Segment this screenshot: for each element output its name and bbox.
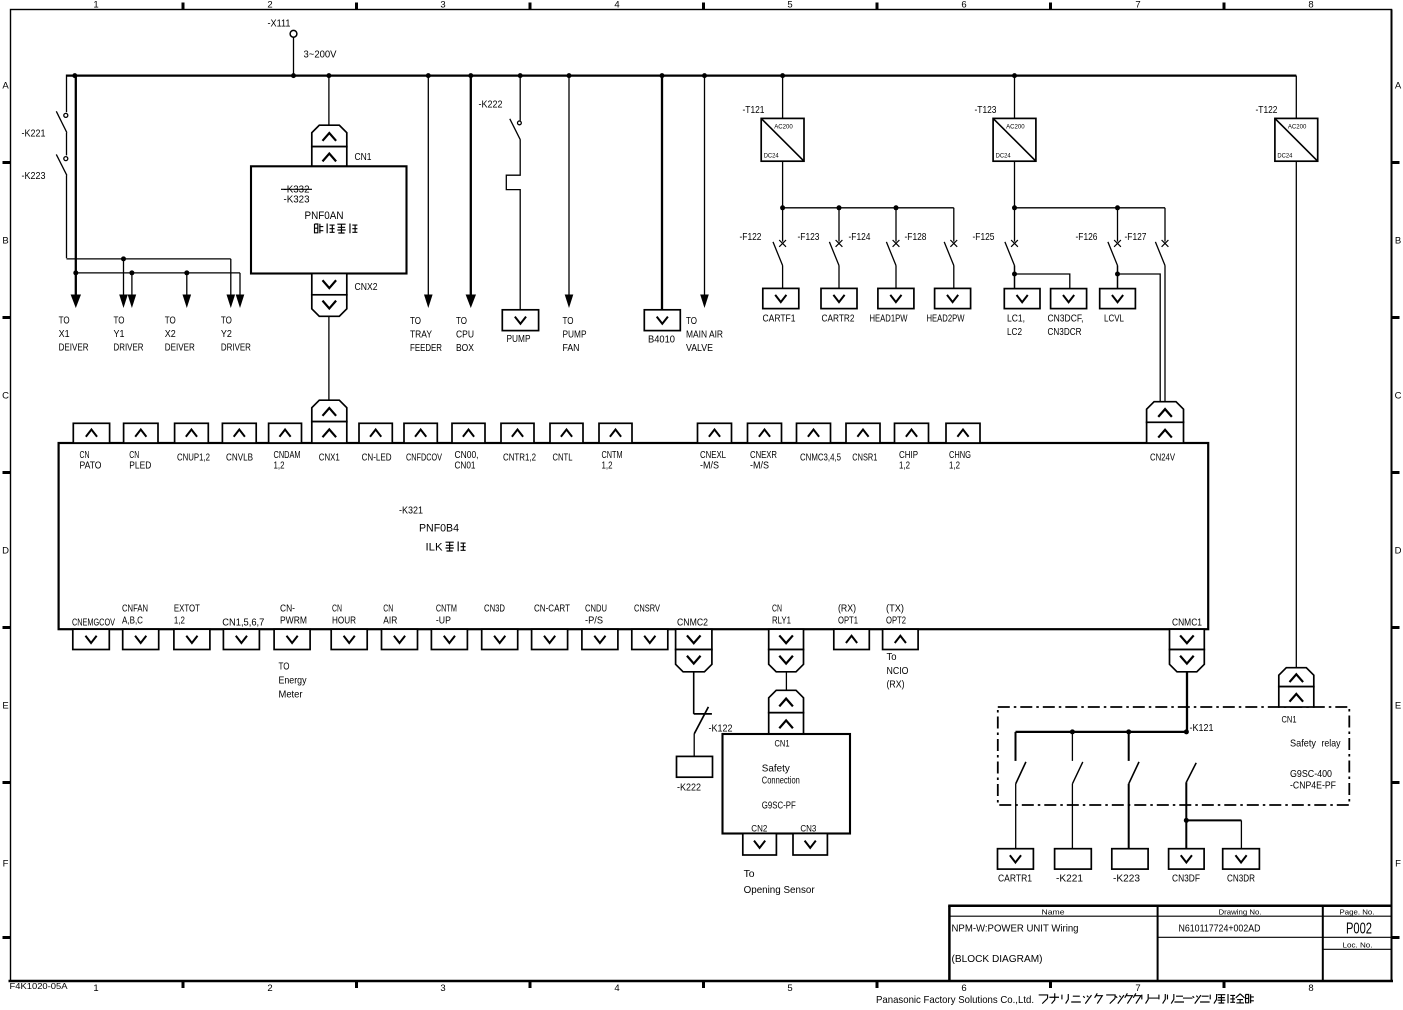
- pin label CNTL: [553, 453, 573, 464]
- svg-text:AC200: AC200: [1006, 124, 1025, 131]
- svg-text:CN1: CN1: [1282, 715, 1297, 725]
- pin label CN HOUR: [332, 603, 356, 626]
- svg-text:-X111: -X111: [268, 19, 291, 30]
- connector CNVLB: [222, 423, 256, 443]
- label 瞬停基板 (momentary-stop board): [315, 224, 358, 234]
- svg-text:P002: P002: [1346, 921, 1372, 938]
- svg-text:CHIP: CHIP: [899, 450, 918, 461]
- label Safety relay: [1290, 739, 1341, 750]
- box Safety Connection G9SC-PF: [723, 734, 851, 834]
- connector CN3: [793, 834, 827, 856]
- transformer -T121 AC200/DC24: [743, 105, 805, 161]
- pin label CNTM-UP: [436, 603, 457, 626]
- svg-text:Drawing No.: Drawing No.: [1219, 908, 1262, 917]
- wire CNMC2 down: [693, 672, 695, 714]
- svg-text:TO: TO: [563, 316, 574, 327]
- svg-text:TO: TO: [686, 316, 697, 327]
- label TO Y2 DRIVER: [221, 316, 251, 354]
- svg-text:CN3DCR: CN3DCR: [1048, 327, 1082, 338]
- pin label OPT2: [886, 603, 906, 626]
- label TO PUMP FAN: [563, 316, 587, 354]
- svg-text:6: 6: [961, 983, 966, 994]
- wire fuse rail 1: [783, 207, 954, 209]
- pin label CNMC3,4,5: [800, 453, 841, 464]
- load box CN3DCF,CN3DCR: [1048, 289, 1087, 338]
- svg-text:-T123: -T123: [975, 105, 997, 116]
- svg-text:2: 2: [267, 983, 272, 994]
- node under F125: [1012, 272, 1017, 277]
- pin label CN RLY1: [772, 603, 791, 626]
- connector CN1 (safety connection): [769, 690, 804, 734]
- switch -K122: [694, 707, 733, 735]
- column tick marks top: [183, 3, 1224, 10]
- wire K221 to K223: [66, 133, 68, 156]
- svg-text:3~200V: 3~200V: [304, 50, 337, 61]
- node on feed line 1: [121, 256, 126, 261]
- connector CNSR1: [846, 423, 880, 443]
- svg-text:8: 8: [1308, 0, 1313, 11]
- svg-text:CN: CN: [80, 450, 90, 461]
- svg-text:Safety: Safety: [1290, 739, 1317, 750]
- connector CN-PWRM: [274, 629, 310, 649]
- svg-text:D: D: [2, 546, 9, 557]
- label TO TRAY FEEDER: [410, 316, 442, 354]
- connector CNX2: [312, 274, 378, 317]
- load box CARTF1: [763, 288, 799, 324]
- svg-text:HEAD2PW: HEAD2PW: [927, 314, 965, 325]
- pin label CN-CART: [534, 603, 571, 614]
- svg-text:Connection: Connection: [762, 776, 800, 787]
- svg-text:CN3DCF,: CN3DCF,: [1048, 314, 1084, 325]
- connector OPT1: [834, 629, 870, 649]
- svg-text:TRAY: TRAY: [410, 330, 432, 341]
- svg-text:CNEXR: CNEXR: [750, 450, 777, 461]
- relay contact K121-2 (to K221 coil): [1072, 732, 1082, 849]
- svg-text:CNMC1: CNMC1: [1172, 618, 1202, 629]
- svg-text:PLED: PLED: [129, 461, 151, 472]
- svg-text:CNEMGCOV: CNEMGCOV: [72, 618, 115, 629]
- svg-text:F: F: [3, 859, 9, 870]
- connector CNDU-P/S: [582, 629, 618, 649]
- frame right edge (thick): [1391, 10, 1393, 982]
- svg-text:4: 4: [614, 983, 619, 994]
- wire F126 to LCVL: [1117, 266, 1119, 289]
- svg-text:CN: CN: [129, 450, 139, 461]
- title block frame: [948, 906, 1391, 981]
- svg-text:B: B: [1395, 236, 1401, 247]
- svg-text:DEIVER: DEIVER: [165, 343, 195, 354]
- pin label CNMC1: [1172, 618, 1202, 629]
- fuse -F122: [740, 208, 787, 289]
- svg-text:CNVLB: CNVLB: [226, 453, 253, 464]
- svg-text:G9SC-PF: G9SC-PF: [762, 801, 796, 812]
- row letters right: [1395, 81, 1402, 870]
- connector CNDAM 1,2: [269, 423, 302, 443]
- connector CNTR1,2: [501, 423, 534, 443]
- svg-text:(RX): (RX): [838, 603, 856, 614]
- load box LC1,LC2: [1004, 289, 1040, 338]
- wire relay contact rail: [1016, 731, 1188, 733]
- label -K332 (struck out): [281, 185, 312, 196]
- svg-text:-M/S: -M/S: [700, 461, 719, 472]
- svg-text:Page. No.: Page. No.: [1340, 908, 1375, 917]
- connector box CN3DF: [1169, 849, 1205, 885]
- svg-text:6: 6: [961, 0, 966, 11]
- pin label CNTM 1,2: [602, 450, 623, 472]
- node under F126: [1115, 272, 1120, 277]
- svg-text:PNF0AN: PNF0AN: [305, 210, 344, 222]
- svg-text:-K223: -K223: [22, 171, 46, 182]
- connector OPT2: [883, 629, 919, 649]
- svg-text:(BLOCK DIAGRAM): (BLOCK DIAGRAM): [952, 953, 1043, 965]
- connector CNEXR -M/S: [748, 423, 782, 443]
- svg-text:DC24: DC24: [764, 153, 780, 160]
- svg-text:E: E: [1395, 701, 1401, 712]
- svg-text:5: 5: [787, 0, 792, 11]
- wire -X111 to bus: [293, 37, 295, 75]
- load box PUMP: [502, 310, 538, 345]
- svg-text:CN1,5,6,7: CN1,5,6,7: [222, 618, 264, 629]
- connector CNFAN A,B,C: [123, 629, 159, 649]
- pin label CNSRV: [634, 603, 660, 614]
- svg-text:TO: TO: [279, 662, 290, 673]
- wire bus to T121: [782, 76, 784, 119]
- pin label CNUP1,2: [177, 453, 210, 464]
- wire T123 to fuse rail 2: [1014, 161, 1016, 208]
- svg-text:CN-: CN-: [280, 603, 295, 614]
- svg-text:5: 5: [787, 983, 792, 994]
- connector CN-LED: [359, 423, 392, 443]
- svg-text:CN2: CN2: [751, 824, 767, 834]
- wire arrow to X2 driver: [183, 273, 192, 308]
- svg-text:1: 1: [93, 983, 98, 994]
- pin label CNEXR -M/S: [750, 450, 777, 472]
- svg-text:-F128: -F128: [905, 232, 927, 243]
- svg-text:AC200: AC200: [774, 124, 793, 131]
- bus junction nodes: [72, 73, 1017, 78]
- svg-text:-K121: -K121: [1190, 723, 1214, 734]
- connector CNUP1,2: [175, 423, 209, 443]
- label Safety Connection: [762, 764, 800, 787]
- label To NCIO (RX): [887, 652, 909, 691]
- svg-text:CN3D: CN3D: [484, 603, 505, 614]
- svg-text:Energy: Energy: [279, 676, 308, 687]
- svg-text:LCVL: LCVL: [1104, 314, 1124, 325]
- connector CNTM-UP: [431, 629, 467, 649]
- svg-text:-M/S: -M/S: [750, 461, 769, 472]
- connector CNSRV: [632, 629, 668, 649]
- connector CN PLED: [124, 423, 158, 443]
- connector CN3D: [482, 629, 518, 649]
- connector CN-CART: [532, 629, 568, 649]
- connector CN1 (PNF0AN): [312, 125, 372, 166]
- svg-text:CARTF1: CARTF1: [763, 314, 796, 325]
- svg-text:CARTR1: CARTR1: [998, 874, 1032, 885]
- label TO CPU BOX: [456, 316, 474, 354]
- svg-text:CN-CART: CN-CART: [534, 603, 571, 614]
- svg-text:CN3DR: CN3DR: [1227, 874, 1255, 885]
- svg-text:CNSR1: CNSR1: [852, 453, 877, 464]
- svg-text:CN1: CN1: [355, 152, 372, 163]
- connector CN1 (safety relay): [1279, 668, 1314, 707]
- pin label CHNG 1,2: [949, 450, 971, 472]
- svg-text:F: F: [1395, 859, 1401, 870]
- wire K223 down to feed line 1: [66, 175, 68, 258]
- svg-text:1,2: 1,2: [602, 461, 613, 472]
- svg-text:CN01: CN01: [455, 461, 476, 472]
- wire arrow to Y2 driver (a): [227, 259, 236, 308]
- svg-text:8: 8: [1308, 983, 1313, 994]
- svg-text:CN-LED: CN-LED: [362, 453, 392, 464]
- svg-text:LC2: LC2: [1007, 327, 1022, 338]
- svg-text:D: D: [1395, 546, 1402, 557]
- svg-text:VALVE: VALVE: [686, 343, 713, 354]
- svg-text:CNMC3,4,5: CNMC3,4,5: [800, 453, 841, 464]
- frame bottom edge (thick): [9, 980, 1394, 982]
- wire bus down to K221: [66, 75, 68, 113]
- relay coil box -K221: [1055, 849, 1092, 885]
- wire arrow to Y1 driver (b): [128, 273, 137, 308]
- fuse -F126: [1076, 208, 1121, 289]
- svg-text:TO: TO: [221, 316, 232, 327]
- label TO Y1 DRIVER: [114, 316, 144, 354]
- svg-text:-K321: -K321: [399, 506, 423, 517]
- relay contact K121-1 (to CARTR1): [1016, 732, 1026, 849]
- connector CHNG 1,2: [946, 423, 980, 443]
- svg-text:-F123: -F123: [798, 232, 820, 243]
- svg-text:CNFAN: CNFAN: [122, 603, 148, 614]
- pin label CN AIR: [383, 603, 397, 626]
- svg-text:NPM-W:POWER UNIT Wiring: NPM-W:POWER UNIT Wiring: [952, 923, 1079, 935]
- svg-text:EXTOT: EXTOT: [174, 603, 201, 614]
- svg-text:LC1,: LC1,: [1007, 314, 1025, 325]
- wire CNMC1 down (thick): [1186, 672, 1188, 732]
- wire branch F126 to CN24V (left): [1118, 274, 1161, 402]
- pin label CN PLED: [129, 450, 151, 472]
- svg-text:Y2: Y2: [221, 329, 232, 340]
- svg-text:A: A: [1395, 81, 1402, 92]
- svg-text:OPT2: OPT2: [886, 616, 906, 627]
- wire fuse rail 2: [1015, 207, 1166, 209]
- svg-text:DRIVER: DRIVER: [221, 343, 251, 354]
- svg-text:-K221: -K221: [1056, 874, 1083, 885]
- svg-text:CNDAM: CNDAM: [274, 450, 301, 461]
- transformer -T122 AC200/DC24: [1256, 105, 1318, 161]
- load box CARTR1: [998, 849, 1034, 885]
- svg-text:CNMC2: CNMC2: [677, 618, 708, 629]
- svg-text:2: 2: [267, 0, 272, 11]
- wire arrow to Y2 driver (b): [236, 273, 245, 308]
- wire thick bus drop to X1 driver: [71, 76, 81, 308]
- wire bus to T123: [1014, 76, 1016, 119]
- connector CN1,5,6,7: [223, 629, 259, 649]
- svg-text:-F125: -F125: [973, 232, 995, 243]
- pin label CN3D: [484, 603, 505, 614]
- label TO X2 DEIVER: [165, 316, 195, 354]
- pin label CN24V: [1150, 453, 1175, 464]
- svg-text:CHNG: CHNG: [949, 450, 971, 461]
- relay contact K121-3 (to K223 coil): [1129, 732, 1139, 849]
- connector CNMC3,4,5: [797, 423, 831, 443]
- svg-text:-F124: -F124: [849, 232, 871, 243]
- pin label CN1,5,6,7: [222, 618, 264, 629]
- connector CNTM 1,2: [599, 423, 632, 443]
- connector CNMC1 (double): [1170, 629, 1205, 672]
- wire bus to B4010 (thick): [661, 76, 663, 310]
- label TO X1 DEIVER: [59, 316, 89, 354]
- connector CN PATO: [73, 423, 109, 443]
- wire CNX2 to CNX1: [328, 316, 330, 400]
- svg-text:CN1: CN1: [775, 739, 790, 749]
- row tick marks left: [3, 163, 11, 938]
- nodes on fuse rail 2: [1012, 205, 1120, 210]
- svg-text:(RX): (RX): [887, 680, 905, 691]
- wire K122 to K222 coil: [693, 734, 695, 757]
- connector CNX1 (double): [312, 400, 347, 443]
- svg-text:FAN: FAN: [563, 343, 580, 354]
- svg-text:C: C: [1395, 391, 1402, 402]
- connector CNTL: [550, 423, 583, 443]
- wire bus to K222: [519, 76, 521, 121]
- wire F125 to LC boxes: [1014, 266, 1016, 289]
- svg-text:Y1: Y1: [114, 329, 125, 340]
- svg-text:-F127: -F127: [1125, 232, 1147, 243]
- svg-text:Loc. No.: Loc. No.: [1343, 940, 1373, 949]
- connector CN24V (double): [1147, 402, 1184, 443]
- svg-text:DRIVER: DRIVER: [114, 343, 144, 354]
- node CN3D branch: [1184, 818, 1189, 823]
- wire arrow to Y1 driver (a): [119, 259, 128, 308]
- wire feed line 2 horizontal: [76, 272, 240, 274]
- wire feed line 1 horizontal: [67, 258, 231, 260]
- pin label CNDAM 1,2: [274, 450, 301, 472]
- svg-text:1,2: 1,2: [174, 616, 185, 627]
- column numbers top: [93, 0, 1313, 11]
- svg-text:CARTR2: CARTR2: [822, 314, 855, 325]
- connector box CN3DR: [1223, 849, 1260, 885]
- svg-text:-T122: -T122: [1256, 105, 1278, 116]
- svg-text:CNFDCOV: CNFDCOV: [406, 453, 442, 464]
- connector CN00,CN01: [452, 423, 485, 443]
- switch -K223: [22, 154, 68, 182]
- connector CN HOUR: [331, 629, 367, 649]
- wire bus to CN1 connector: [328, 76, 330, 126]
- svg-text:B: B: [2, 236, 8, 247]
- svg-text:-CNP4E-PF: -CNP4E-PF: [1290, 781, 1336, 792]
- svg-text:RLY1: RLY1: [772, 616, 791, 627]
- svg-text:-K323: -K323: [284, 195, 310, 206]
- svg-text:G9SC-400: G9SC-400: [1290, 769, 1332, 780]
- board PNF0AN: [251, 166, 407, 273]
- svg-text:1,2: 1,2: [949, 461, 960, 472]
- fuse -F127: [1125, 208, 1169, 266]
- svg-text:To: To: [887, 652, 897, 663]
- connector CN AIR: [382, 629, 418, 649]
- svg-text:-F126: -F126: [1076, 232, 1098, 243]
- nodes on fuse rail 1: [780, 205, 898, 210]
- svg-text:4: 4: [614, 0, 619, 11]
- svg-text:DC24: DC24: [996, 153, 1012, 160]
- connector CN RLY1 (double): [769, 629, 804, 672]
- pin label CN-LED: [362, 453, 392, 464]
- svg-text:CNEXL: CNEXL: [700, 450, 726, 461]
- svg-text:-K221: -K221: [22, 129, 46, 140]
- box Safety relay G9SC-400 (dash-dot): [998, 707, 1350, 805]
- svg-text:FEEDER: FEEDER: [410, 343, 442, 354]
- wire T121 to fuse rail: [782, 161, 784, 208]
- load box HEAD2PW: [927, 288, 971, 324]
- pin label OPT1: [838, 603, 858, 626]
- svg-text:CPU: CPU: [456, 330, 474, 341]
- pin label CNSR1: [852, 453, 877, 464]
- label ILK基板: [426, 542, 466, 554]
- svg-text:CN: CN: [772, 603, 782, 614]
- wire branch to CN3DCF box: [1015, 274, 1070, 289]
- svg-text:TO: TO: [165, 316, 176, 327]
- svg-text:7: 7: [1135, 983, 1140, 994]
- svg-text:C: C: [2, 391, 9, 402]
- column tick marks bottom: [183, 981, 1224, 988]
- footer Panasonic Factory Solutions: [876, 993, 1254, 1006]
- connector CNEXL -M/S: [698, 423, 732, 443]
- wire T122 down to safety relay CN1: [1295, 161, 1297, 668]
- label To Opening Sensor: [744, 868, 815, 896]
- svg-text:PATO: PATO: [80, 461, 102, 472]
- load box HEAD1PW: [870, 288, 914, 324]
- svg-text:Panasonic Factory Solutions Co: Panasonic Factory Solutions Co.,Ltd.: [876, 994, 1034, 1006]
- svg-text:Meter: Meter: [279, 690, 304, 701]
- svg-text:CNX1: CNX1: [319, 453, 340, 464]
- svg-text:7: 7: [1135, 0, 1140, 11]
- connector CN2: [743, 834, 777, 856]
- row tick marks right: [1392, 163, 1400, 938]
- svg-text:F4K1020-05A: F4K1020-05A: [10, 981, 68, 991]
- svg-text:relay: relay: [1322, 739, 1342, 750]
- connector CNEMGCOV: [73, 629, 110, 649]
- svg-text:CNTM: CNTM: [602, 450, 623, 461]
- svg-text:OPT1: OPT1: [838, 616, 858, 627]
- label TO Energy Meter: [279, 662, 308, 701]
- wire arrow TO CPU BOX (thick): [466, 76, 476, 308]
- pin label CNEXL -M/S: [700, 450, 726, 472]
- wire main 200V bus: [67, 74, 1297, 76]
- svg-text:-K122: -K122: [709, 724, 733, 735]
- svg-text:-K223: -K223: [1113, 874, 1140, 885]
- load box LCVL: [1100, 289, 1136, 325]
- svg-text:A: A: [2, 81, 9, 92]
- pin label CN PATO: [80, 450, 102, 472]
- svg-text:PWRM: PWRM: [280, 616, 307, 627]
- relay coil box -K223: [1112, 849, 1148, 885]
- label TO MAIN AIR VALVE: [686, 316, 723, 354]
- wire arrow TO TRAY FEEDER: [424, 76, 433, 308]
- svg-text:A,B,C: A,B,C: [122, 616, 143, 627]
- load box CARTR2: [821, 288, 857, 324]
- pin label EXTOT 1,2: [174, 603, 201, 626]
- pin label CN00,CN01: [455, 450, 479, 472]
- terminal -X111: [268, 19, 297, 38]
- svg-text:(TX): (TX): [886, 603, 904, 614]
- svg-text:Name: Name: [1042, 908, 1065, 917]
- svg-text:-K222: -K222: [677, 783, 701, 794]
- relay contact K121-4 (to CN3DF/CN3DR): [1186, 763, 1196, 849]
- transformer -T123 AC200/DC24: [975, 105, 1036, 161]
- svg-text:PNF0B4: PNF0B4: [419, 523, 459, 535]
- connector EXTOT 1,2: [174, 629, 210, 649]
- svg-text:X1: X1: [59, 329, 70, 340]
- svg-text:DEIVER: DEIVER: [59, 343, 89, 354]
- svg-text:PUMP: PUMP: [507, 334, 531, 345]
